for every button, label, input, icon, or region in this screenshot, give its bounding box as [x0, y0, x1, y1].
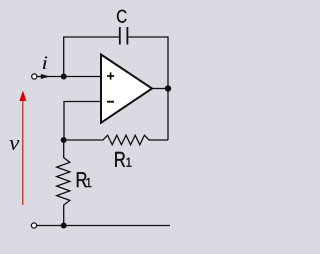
wire: inverting input feedback branch — [64, 102, 102, 141]
arrow: voltage v (red) — [19, 91, 26, 206]
node: input junction — [61, 74, 67, 80]
label R1 (feedback) — [115, 152, 125, 167]
terminal: bottom port (open circle) — [31, 223, 36, 228]
node: feedback junction — [61, 137, 67, 143]
label i — [43, 56, 48, 68]
label C — [117, 10, 127, 23]
label R1 (grounding) — [77, 172, 87, 187]
wire: non-inverting input — [64, 76, 102, 78]
wire: top rail right segment down to feedback corner — [128, 37, 168, 140]
wire: input lead with current arrow — [37, 76, 64, 78]
resistor R1 (grounding, vertical) — [57, 140, 70, 226]
terminal: input port (open circle) — [32, 74, 37, 79]
node: bottom junction — [61, 223, 67, 229]
label v — [9, 140, 19, 150]
wire: top rail left segment (node to capacitor) — [64, 37, 119, 77]
node: output junction — [165, 85, 171, 91]
op-amp U1 — [101, 55, 152, 123]
wire: op-amp output — [152, 88, 168, 90]
resistor R1 (feedback, horizontal) — [64, 135, 168, 145]
wire: bottom rail — [37, 225, 170, 227]
arrow: current direction i — [41, 74, 50, 79]
capacitor C — [120, 27, 128, 45]
